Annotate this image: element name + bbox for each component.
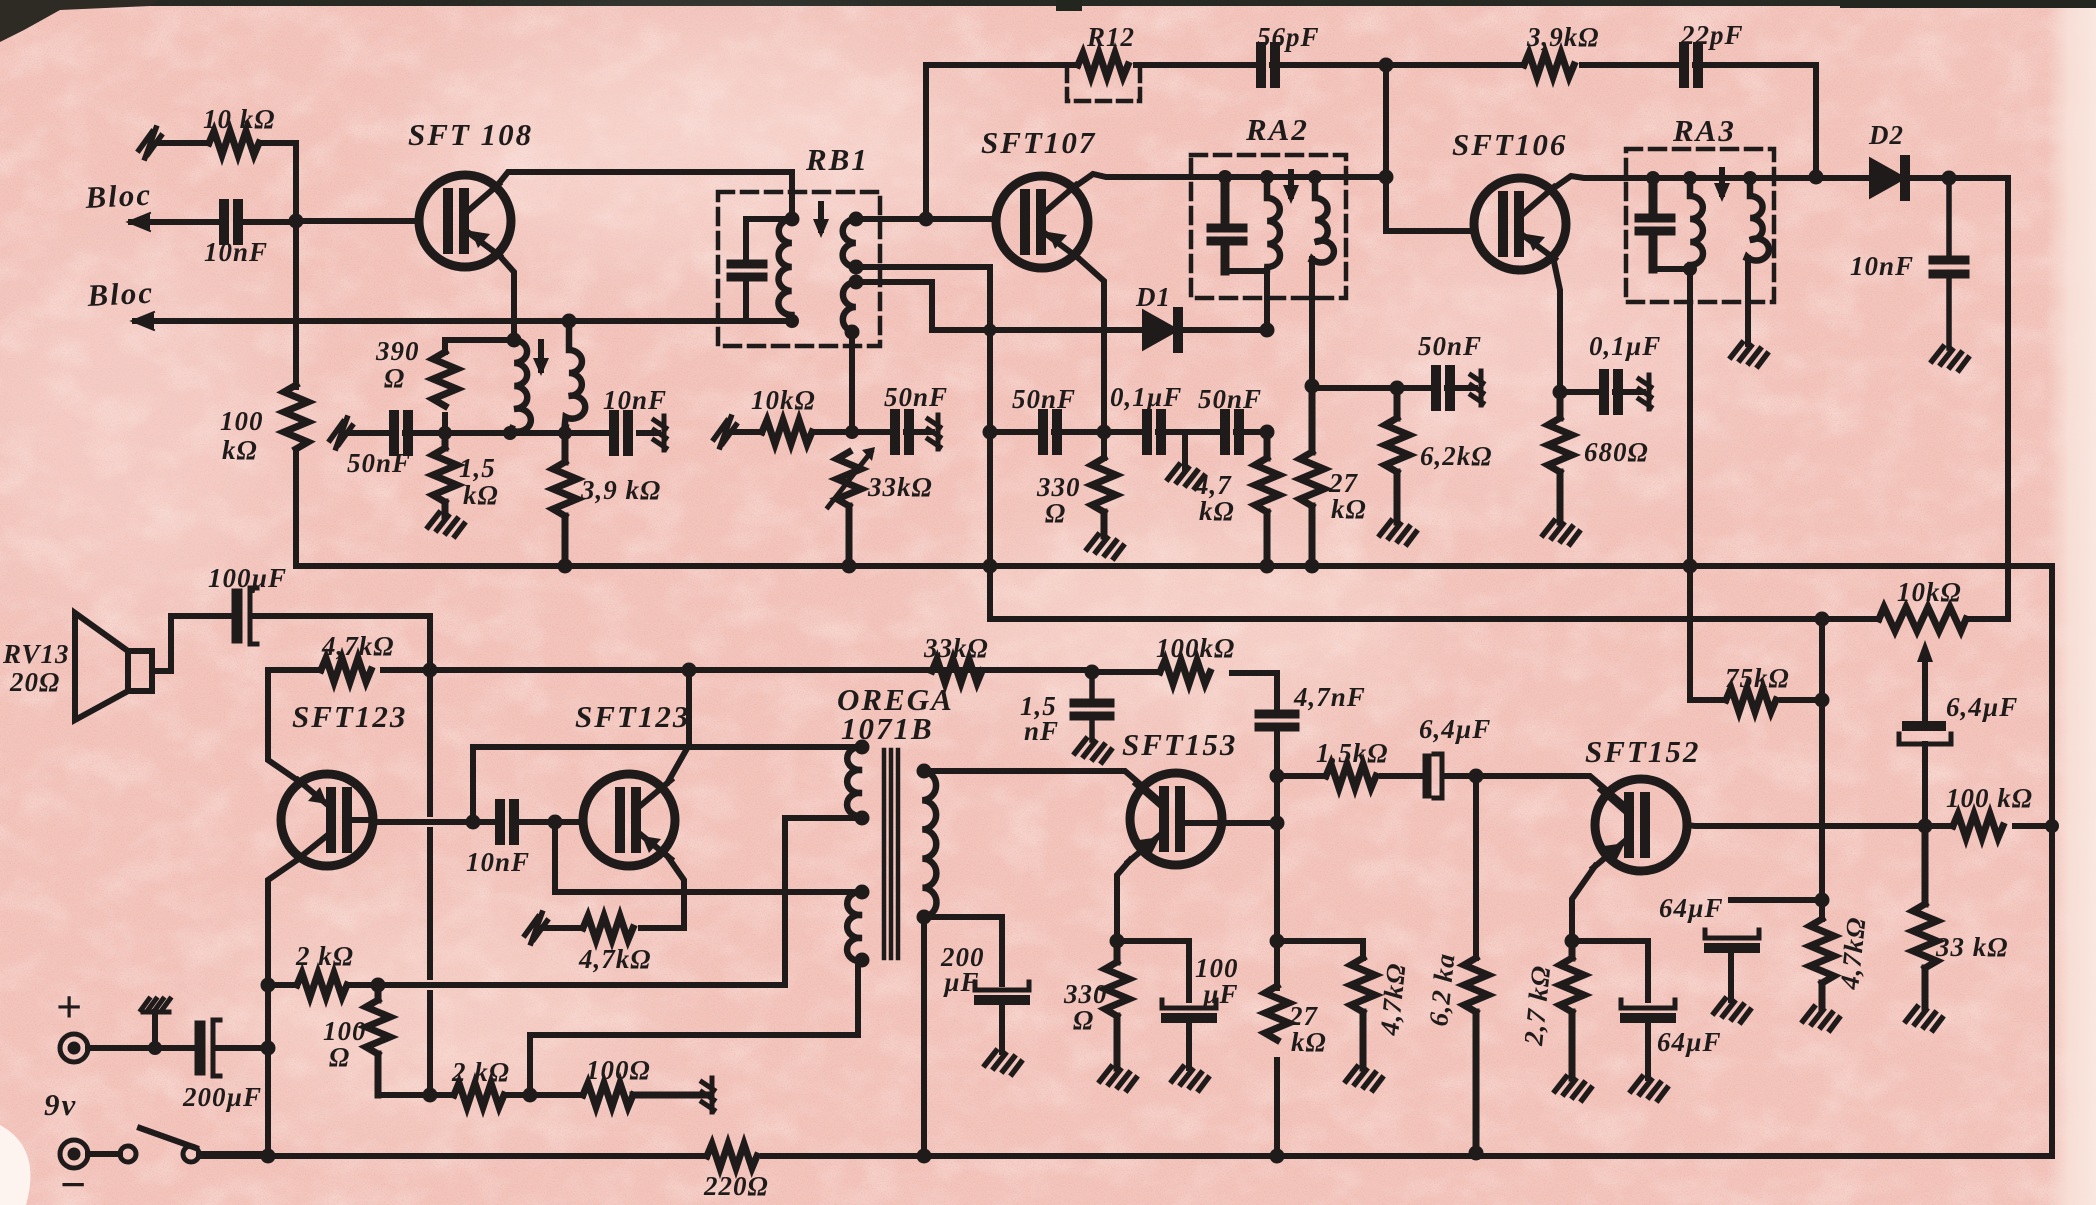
resistor 3,9kΩ (top) — [1524, 53, 1574, 77]
svg-text:6,2kΩ: 6,2kΩ — [1420, 441, 1492, 471]
resistor 100kΩ (on left vertical) — [284, 385, 308, 449]
resistor 4,7kΩ (SFT123 feedback) — [321, 658, 371, 682]
svg-text:D1: D1 — [1135, 282, 1171, 312]
capacitor 50nF (SFT106 base) — [1436, 370, 1450, 406]
wire collector SFT152 output — [1686, 825, 2052, 826]
node 100Ω top — [371, 978, 386, 993]
svg-text:µF: µF — [1202, 979, 1239, 1009]
wire to 390Ω — [445, 340, 514, 433]
wire RB1 mid b staircase — [856, 282, 932, 330]
aerial cut symbol — [139, 128, 161, 158]
svg-text:RV13: RV13 — [2, 639, 70, 669]
resistor 220Ω (rail) — [707, 1144, 757, 1168]
wire base SFT108 — [296, 218, 419, 224]
svg-text:75kΩ: 75kΩ — [1725, 663, 1790, 693]
resistor 6,2kΩ — [1385, 388, 1409, 522]
node emitter/390 — [507, 333, 522, 348]
feed line y670 — [268, 670, 1277, 673]
node junction x926 — [919, 212, 934, 227]
svg-text:RB1: RB1 — [805, 142, 869, 177]
resistor 390Ω — [433, 352, 457, 406]
RB1 cap wires — [746, 219, 792, 321]
node D1 to RA2 — [1260, 323, 1275, 338]
wire to 2k b — [378, 1092, 454, 1098]
node 390 bottom — [438, 426, 452, 440]
T1 tuning arrow — [538, 342, 544, 370]
node ground stub — [148, 1041, 162, 1055]
node RA3 sec top — [1743, 171, 1757, 185]
wire collector SFT123b up — [668, 670, 689, 782]
transformer RA3 dashed box — [1626, 149, 1774, 302]
resistor 3,9kΩ — [553, 433, 577, 566]
wire aerial to 10k — [158, 140, 296, 146]
svg-text:200µF: 200µF — [182, 1082, 262, 1112]
node RB1 sec mid a — [849, 260, 864, 275]
node RA2 sec top — [1308, 170, 1322, 184]
RA3 wire bottoms — [1653, 266, 1690, 272]
ground stub 0,1µF — [1182, 432, 1188, 468]
wire 56pF down to RA2/SFT106 base — [1386, 65, 1474, 231]
wire speaker to 100µF — [152, 616, 232, 671]
svg-text:SFT107: SFT107 — [981, 125, 1096, 160]
node 200µF/vertical — [261, 1041, 276, 1056]
node RA2 cap top — [1218, 170, 1232, 184]
transformer RB1 dashed box — [718, 192, 880, 346]
transistor SFT123 a — [281, 774, 373, 866]
diode D2 — [1871, 160, 1903, 196]
node RA3 line on rail — [1683, 559, 1698, 574]
RA2 secondary coil — [1312, 177, 1334, 263]
resistor 100kΩ (AF) — [1160, 660, 1210, 684]
node 56pF junction — [1379, 58, 1394, 73]
node 64uF line — [1815, 893, 1830, 908]
wire to 64µF#1 — [1572, 941, 1648, 1000]
resistor 100Ω (a) — [366, 985, 390, 1095]
node RA3 coil top — [1683, 171, 1697, 185]
node emitter row — [1097, 425, 1112, 440]
node AGC rail — [983, 559, 998, 574]
wire 100µF to junction — [252, 616, 430, 1095]
wire 6,2k vertical — [1473, 776, 1479, 958]
node 10nF left — [466, 815, 481, 830]
transistor SFT153 — [1130, 773, 1222, 865]
svg-text:10 kΩ: 10 kΩ — [203, 104, 275, 134]
svg-text:50nF: 50nF — [884, 382, 948, 412]
speaker RV13 — [75, 613, 152, 720]
wire RA2 sec bottom down — [1309, 259, 1315, 386]
dark scan edge top — [0, 0, 2096, 6]
OREGA core — [884, 750, 898, 958]
svg-text:SFT153: SFT153 — [1122, 727, 1237, 762]
svg-text:Ω: Ω — [329, 1042, 350, 1072]
wire collector line down to rail — [265, 985, 271, 1156]
node T1 primary bottom — [785, 314, 799, 328]
node RA2 top right — [1379, 170, 1394, 185]
resistor 1,5kΩ — [433, 433, 457, 516]
svg-text:3,9 kΩ: 3,9 kΩ — [580, 475, 661, 505]
node 33k top — [845, 425, 859, 439]
RB1 primary coil — [778, 219, 792, 322]
capacitor 0,1µF (SFT106) — [1604, 374, 1618, 410]
wire 64µF#2 to AGC — [1731, 897, 1822, 903]
R12 dashed box — [1067, 68, 1140, 101]
wire 0,1µF row — [1560, 389, 1643, 395]
node 22pF corner on RA3 line — [1809, 170, 1824, 185]
svg-text:220Ω: 220Ω — [703, 1171, 769, 1201]
switch — [88, 1151, 120, 1157]
contact symbol 10nF — [654, 416, 666, 450]
transformer T1 primary coil — [510, 340, 531, 432]
node RB1 sec bottom — [845, 325, 860, 340]
diode D1 — [1144, 312, 1176, 348]
potentiometer 10kΩ (volume) — [1879, 607, 1966, 631]
svg-text:100 kΩ: 100 kΩ — [1946, 783, 2033, 813]
cut symbol 10k row — [714, 417, 736, 447]
wire RB1 sec top to SFT107 base — [856, 216, 996, 222]
svg-text:50nF: 50nF — [1012, 384, 1076, 414]
capacitor 100µF (bypass) — [1162, 1000, 1216, 1008]
chassis ground (inverted) — [152, 1012, 158, 1048]
OREGA primary coil 2 — [847, 892, 862, 961]
RA2 wire cap/coil bottom — [1225, 271, 1267, 330]
svg-text:100Ω: 100Ω — [586, 1055, 651, 1085]
svg-text:33 kΩ: 33 kΩ — [1935, 932, 2008, 962]
svg-text:10kΩ: 10kΩ — [1897, 577, 1962, 607]
wire RB1 mid a staircase — [856, 267, 990, 330]
capacitor 0,1µF — [1147, 414, 1161, 450]
arrowhead Bloc 2 — [132, 312, 154, 330]
potentiometer 33kΩ — [837, 452, 861, 566]
wire D2 out — [1905, 178, 2008, 619]
soft light patches — [0, 40, 1740, 1110]
svg-text:kΩ: kΩ — [1199, 496, 1235, 526]
svg-text:0,1µF: 0,1µF — [1110, 382, 1182, 412]
svg-text:22pF: 22pF — [1680, 20, 1744, 50]
wire OREGA sec bottom — [924, 917, 1002, 1156]
RA3 AGC vertical long — [1687, 269, 1693, 700]
capacitor 200µF (battery) — [195, 1026, 206, 1070]
transformer RA2 dashed box — [1191, 155, 1346, 298]
resistor 4,7kΩ (AGC) — [1810, 919, 1834, 1008]
svg-text:Ω: Ω — [1045, 498, 1066, 528]
capacitor 10nF (interstage) — [500, 804, 514, 840]
svg-text:SFT152: SFT152 — [1585, 734, 1700, 769]
svg-text:1071B: 1071B — [841, 711, 934, 746]
capacitor 10nF (Bloc 1) — [224, 204, 238, 240]
svg-text:kΩ: kΩ — [1331, 494, 1367, 524]
AGC line to volume pot — [990, 616, 2008, 622]
RB1 secondary coil lower — [843, 282, 856, 332]
svg-text:SFT106: SFT106 — [1452, 127, 1567, 162]
light patch bottom-left corner — [0, 1125, 30, 1205]
AGC bias vertical x1822 — [1819, 619, 1825, 919]
ground 1,5kΩ — [428, 513, 464, 536]
node 10nF right — [548, 815, 563, 830]
resistor 2kΩ (a) — [268, 982, 378, 988]
node T1 secondary bottom lead — [558, 426, 572, 440]
svg-text:4,7nF: 4,7nF — [1293, 682, 1366, 712]
wire emitter SFT152 — [1572, 866, 1595, 941]
svg-text:RA2: RA2 — [1245, 112, 1309, 147]
node RB1 sec top — [849, 212, 864, 227]
RB1 secondary coil upper — [843, 219, 856, 267]
capacitor 50nF (RB1) — [895, 414, 909, 450]
node 6,4µF/33k — [1918, 819, 1933, 834]
resistor 100kΩ (output) — [1953, 814, 2003, 838]
RA3 primary coil — [1690, 178, 1703, 269]
transistor SFT108 — [419, 175, 511, 267]
node 27k top — [1305, 379, 1320, 394]
RA3 tuning arrow — [1719, 170, 1725, 194]
wire 10nF right to base b — [517, 819, 583, 825]
wire emitter SFT153 — [1117, 860, 1130, 941]
resistor 27kΩ (driver load) — [1265, 986, 1289, 1040]
wire R12 feed vertical — [923, 65, 929, 219]
wire 27k branch to 4,7k — [1277, 941, 1363, 958]
battery minus terminal — [60, 1140, 88, 1168]
svg-text:10nF: 10nF — [603, 385, 667, 415]
svg-text:D2: D2 — [1868, 120, 1904, 150]
node T1 secondary top on Bloc2 line — [562, 314, 577, 329]
wire input row — [349, 430, 658, 436]
wire to 100µF cap — [1117, 941, 1189, 1000]
svg-text:µF: µF — [943, 967, 980, 997]
bottom rail — [199, 1153, 2052, 1159]
wire emitter SFT123a up — [268, 670, 300, 782]
node output on rail — [2045, 819, 2059, 833]
node collector/2k — [261, 978, 276, 993]
capacitor 6,4µF (AGC) — [1907, 721, 1941, 731]
wire collector SFT108 — [496, 172, 792, 219]
svg-text:10kΩ: 10kΩ — [751, 385, 816, 415]
wire emitter SFT123b down — [668, 857, 684, 928]
RA2 tuning arrow — [1288, 172, 1294, 196]
resistor 33kΩ (output) — [1913, 826, 1937, 1008]
wire collector SFT106 to RA3/D2 — [1551, 176, 1871, 190]
contact symbol — [1639, 375, 1651, 409]
resistor 330Ω — [1092, 458, 1116, 536]
svg-text:kΩ: kΩ — [463, 480, 499, 510]
svg-text:0,1µF: 0,1µF — [1589, 331, 1661, 361]
svg-text:+: + — [56, 981, 82, 1032]
transistor SFT106 — [1474, 178, 1566, 270]
svg-text:2 kΩ: 2 kΩ — [295, 941, 354, 971]
OREGA secondary coil — [922, 771, 936, 917]
svg-text:100: 100 — [220, 406, 264, 436]
wire 10k row — [733, 429, 932, 435]
node AGC caps row — [983, 425, 998, 440]
wire Bloc output 2 (long) — [135, 318, 792, 324]
svg-text:Ω: Ω — [1073, 1005, 1094, 1035]
resistor 10kΩ (aerial) — [209, 131, 259, 155]
contact symbol — [1471, 371, 1483, 405]
capacitor 64µF (AGC bypass) — [1705, 930, 1759, 938]
RA3 secondary coil — [1747, 178, 1769, 261]
node row to 4,7k — [1260, 425, 1275, 440]
svg-text:SFT 108: SFT 108 — [408, 117, 533, 152]
svg-text:100kΩ: 100kΩ — [1156, 633, 1235, 663]
svg-text:10nF: 10nF — [1850, 251, 1914, 281]
cut symbol 4,7k left — [525, 913, 547, 943]
node 75k right — [1815, 693, 1830, 708]
RB1 tuning arrow — [818, 204, 824, 230]
node RA2 coil top — [1260, 170, 1274, 184]
wire emitter SFT106 — [1553, 257, 1560, 392]
node x1822 on AGC line — [1815, 612, 1830, 627]
RA2 capacitor — [1211, 177, 1243, 271]
node AGC vertical on D1 line — [984, 324, 997, 337]
svg-text:64µF: 64µF — [1657, 1027, 1722, 1057]
AGC vertical wire — [987, 267, 993, 619]
svg-text:33kΩ: 33kΩ — [867, 472, 933, 502]
svg-text:3,9kΩ: 3,9kΩ — [1526, 22, 1599, 52]
svg-text:33kΩ: 33kΩ — [923, 633, 989, 663]
OREGA primary coil 1 — [847, 747, 862, 816]
branch wire to OREGA pri2 bottom — [530, 962, 858, 1095]
resistor 2,7kΩ — [1560, 941, 1584, 1078]
node branch — [523, 1088, 538, 1103]
svg-text:50nF: 50nF — [347, 448, 411, 478]
node 1,5nF top — [1085, 665, 1100, 680]
svg-text:9v: 9v — [44, 1087, 77, 1122]
right rail vertical — [2049, 566, 2055, 1156]
RA2 primary coil — [1267, 177, 1280, 271]
transistor SFT107 — [996, 176, 1088, 268]
capacitor 50nF (SFT107 emitter) — [1043, 414, 1057, 450]
capacitor 100µF (output) — [232, 594, 243, 638]
svg-text:56pF: 56pF — [1257, 22, 1320, 52]
resistor 4,7kΩ (SFT123b emitter) — [542, 925, 684, 931]
svg-text:680Ω: 680Ω — [1584, 437, 1649, 467]
svg-text:R12: R12 — [1086, 22, 1135, 52]
cut symbol 50nF input — [330, 418, 352, 448]
RB1 capacitor — [731, 264, 763, 277]
capacitor 64µF (emitter) — [1621, 1000, 1675, 1008]
wire collector SFT153 — [1188, 820, 1277, 826]
node 4,7k right — [423, 663, 438, 678]
svg-text:RA3: RA3 — [1672, 113, 1736, 148]
svg-text:1,5kΩ: 1,5kΩ — [1316, 738, 1388, 768]
driver collector vertical x1277 — [1274, 673, 1280, 1156]
feedback wire upper (to OREGA pri1 top) — [473, 747, 862, 822]
svg-text:50nF: 50nF — [1198, 384, 1262, 414]
capacitor 50nF (to 4,7k) — [1225, 414, 1239, 450]
wire collector SFT123a down — [268, 858, 300, 985]
wire emitter SFT107 — [1075, 255, 1104, 458]
node RB1 sec mid b — [849, 275, 864, 290]
supply rail top section — [296, 563, 2052, 569]
resistor 33kΩ (AF feed) — [932, 659, 982, 683]
svg-text:SFT123: SFT123 — [575, 699, 690, 734]
resistor 75kΩ — [1690, 697, 1822, 703]
svg-text:Bloc: Bloc — [84, 177, 153, 215]
resistor 27kΩ — [1300, 386, 1324, 566]
wire collector SFT107 to RA2 — [1073, 174, 1386, 188]
resistor 2kΩ (b) — [454, 1083, 504, 1107]
wire D1 line — [932, 327, 1267, 333]
node RA3 cap top — [1646, 171, 1660, 185]
resistor 4,7kΩ (IF) — [1255, 432, 1279, 566]
wire caps row SFT107 — [990, 429, 1267, 435]
capacitor 200µF (AF) — [975, 982, 1029, 990]
capacitor 4,7nF — [1259, 714, 1295, 727]
node 33k on rail — [842, 559, 857, 574]
pot wiper arrow — [1922, 662, 1928, 724]
capacitor 10nF (detector) — [1933, 178, 1965, 348]
capacitor 50nF (input) — [394, 415, 408, 451]
svg-text:kΩ: kΩ — [222, 435, 258, 465]
resistor 1,5kΩ (AF) — [1326, 764, 1376, 788]
feedback wire lower (to OREGA pri2 top) — [555, 822, 862, 892]
transistor SFT152 — [1595, 779, 1687, 871]
wire T1 coil bottoms to row — [510, 427, 566, 433]
svg-text:6,4µF: 6,4µF — [1419, 714, 1491, 744]
svg-text:SFT123: SFT123 — [292, 699, 407, 734]
wire OREGA sec top to SFT153 — [924, 771, 1162, 803]
wire 2k row to OREGA pri1 bottom — [378, 818, 862, 985]
resistor 330Ω (AF) — [1105, 941, 1129, 1068]
node RB1 primary top — [785, 212, 800, 227]
node T1 primary bottom lead — [503, 426, 517, 440]
wire base SFT123a — [355, 820, 495, 822]
resistor 10kΩ (RB1 bias) — [762, 420, 812, 444]
battery plus terminal — [60, 1034, 88, 1062]
resistor R12 — [1078, 53, 1128, 77]
transistor SFT123 b — [583, 774, 675, 866]
wire 50nF row SFT106 base — [1312, 385, 1475, 391]
svg-text:6,4µF: 6,4µF — [1946, 692, 2018, 722]
contact symbol 50nF RB1 — [928, 415, 940, 449]
node SFT106 emitter row — [1553, 385, 1568, 400]
svg-text:kΩ: kΩ — [1291, 1027, 1327, 1057]
RA3 capacitor — [1639, 178, 1671, 269]
wire driver to 1,5k — [1277, 776, 1625, 806]
svg-text:−: − — [60, 1159, 86, 1205]
node collector SFT123b — [682, 663, 697, 678]
node SFT152 base / 6,2k — [1469, 769, 1484, 784]
svg-text:390: 390 — [375, 336, 420, 366]
node 3,9k on rail — [558, 559, 573, 574]
wire top R12/56pF line — [926, 65, 1816, 177]
RA3 sec ground — [1745, 258, 1751, 344]
transformer T1 secondary coil — [565, 321, 586, 427]
svg-text:100µF: 100µF — [208, 563, 287, 593]
resistor 4,7kΩ (SFT152 base bias) — [1351, 958, 1375, 1068]
node 6,2k top — [1390, 381, 1405, 396]
contact symbol 100Ω — [702, 1078, 714, 1112]
resistor 680Ω — [1548, 392, 1572, 522]
capacitor 10nF (T1) — [614, 415, 628, 451]
svg-text:4,7kΩ: 4,7kΩ — [578, 944, 651, 974]
node RA3 bottom — [1683, 262, 1697, 276]
arrowhead Bloc 1 — [128, 213, 150, 231]
capacitor 56pF — [1261, 47, 1275, 83]
wire Bloc output 1 — [131, 219, 296, 225]
svg-text:10nF: 10nF — [204, 237, 268, 267]
svg-text:1,5: 1,5 — [459, 453, 496, 483]
main left vertical wire — [293, 143, 299, 566]
svg-text:50nF: 50nF — [1418, 331, 1482, 361]
resistor 6,2kΩ (bias) — [1464, 958, 1488, 1153]
svg-text:64µF: 64µF — [1659, 893, 1724, 923]
capacitor 1,5nF — [1074, 672, 1110, 740]
svg-text:20Ω: 20Ω — [9, 667, 60, 697]
svg-text:2 kΩ: 2 kΩ — [451, 1057, 510, 1087]
node x430 bottom — [423, 1088, 438, 1103]
wire RB1 sec bottom down — [849, 332, 855, 432]
wire emitter SFT108 — [498, 254, 514, 340]
svg-text:Ω: Ω — [384, 363, 405, 393]
